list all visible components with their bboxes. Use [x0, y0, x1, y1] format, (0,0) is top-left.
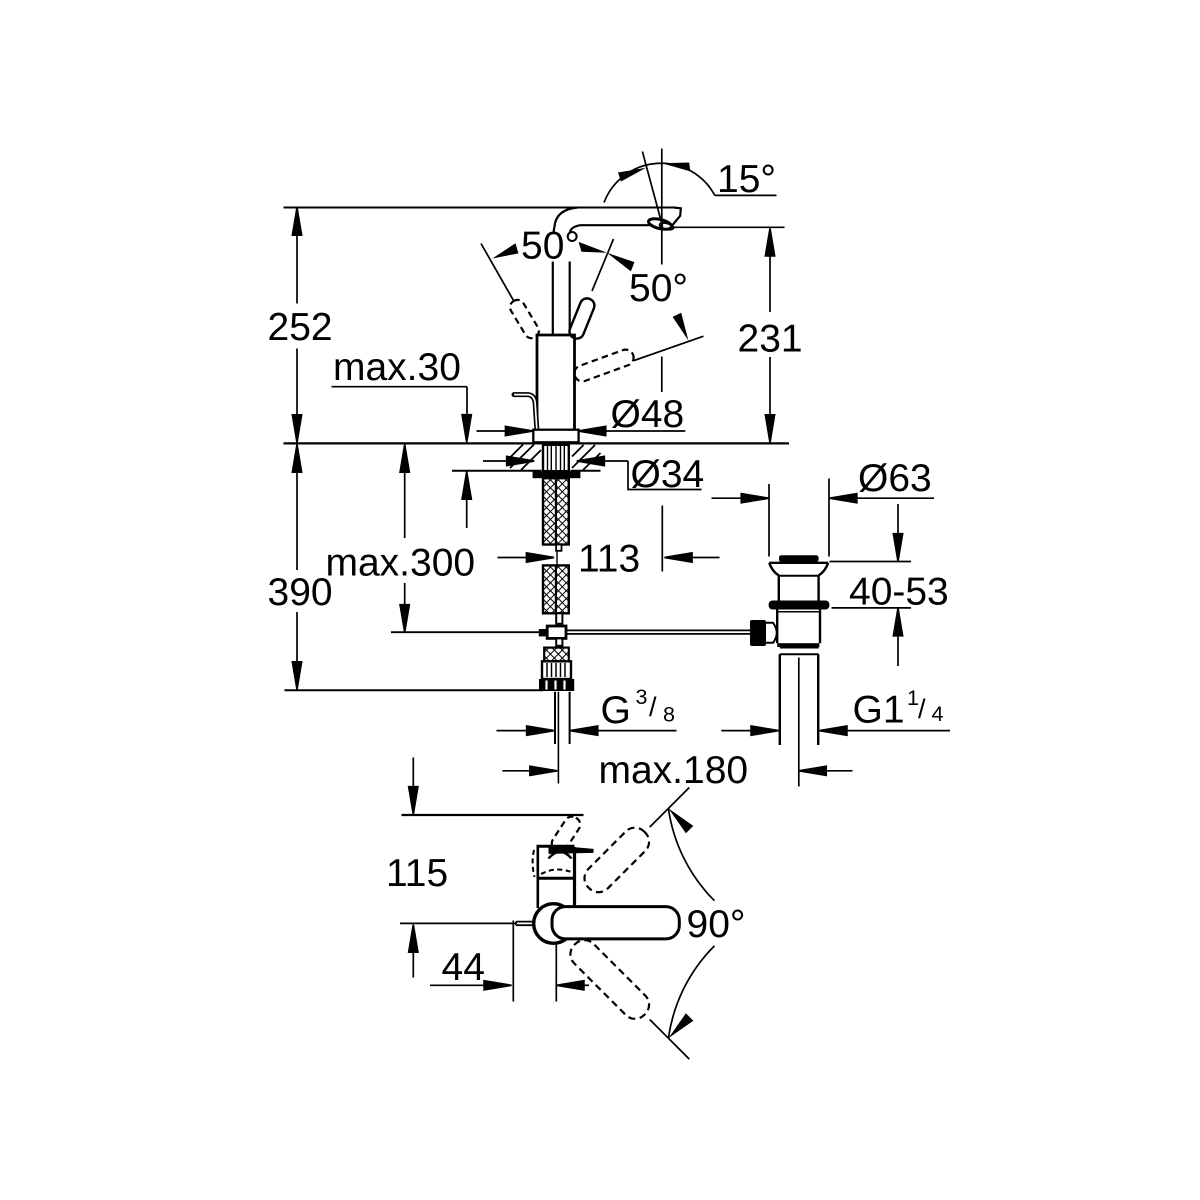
dim 231 outlet extension: [673, 226, 785, 228]
drain neck: [778, 576, 780, 601]
dim 390 bottom reference: [285, 689, 544, 691]
dim 113 arrows: [498, 557, 528, 559]
dim O34 leader: [628, 461, 702, 490]
top view cartridge dome: [549, 852, 572, 859]
svg-text:Ø34: Ø34: [631, 453, 705, 496]
drain flange sides: [769, 563, 779, 576]
top view spout bar: [552, 907, 679, 939]
svg-text:90°: 90°: [687, 903, 746, 946]
svg-text:115: 115: [386, 852, 448, 895]
supply pipe centre extension: [557, 692, 559, 784]
top view lever wedge: [549, 845, 594, 854]
svg-text:50°: 50°: [629, 267, 688, 310]
svg-text:/: /: [649, 692, 657, 722]
faucet body: [536, 334, 576, 337]
top view spout swing dashed lower: [565, 935, 654, 1024]
svg-text:Ø48: Ø48: [611, 393, 685, 436]
dim 15 arrowheads: [618, 168, 646, 182]
dim 15 tilted reference: [642, 152, 662, 227]
svg-text:252: 252: [268, 306, 333, 349]
threaded rod upper: [543, 478, 569, 544]
shank lower threaded piece: [544, 648, 569, 662]
svg-text:G: G: [601, 689, 631, 732]
arrowhead right 50: [673, 313, 689, 341]
dim max30 lower arrow: [466, 473, 468, 528]
pop-up rod handle: [514, 395, 537, 429]
dim 44 arrows: [430, 984, 485, 986]
top view bracket top: [537, 845, 575, 848]
top view bracket bottom: [538, 877, 575, 880]
top view body circle: [534, 904, 574, 944]
drain body bottom ring: [777, 643, 819, 647]
drain washer: [769, 601, 830, 610]
dim 15 leader: [715, 194, 777, 196]
dim 231 line: [769, 230, 771, 312]
drain pop-up cap: [779, 555, 819, 562]
arrowhead 50-1 right: [579, 242, 607, 253]
dim O63 extensions: [768, 484, 770, 557]
pop-up linkage rod: [566, 629, 750, 631]
aerator ring: [647, 217, 672, 232]
dim 390 line: [296, 446, 298, 570]
drain tailpipe: [779, 654, 781, 745]
dim G38 arrows: [497, 730, 528, 732]
shank bottom flange: [539, 679, 574, 691]
dim 90 extension lines: [650, 788, 690, 828]
handle position dashed right 50: [572, 347, 636, 383]
spout top outline: [284, 206, 675, 208]
extension line middle handle axis: [592, 239, 614, 291]
drain rod socket: [766, 623, 777, 643]
svg-text:max.180: max.180: [599, 749, 749, 792]
drain plug rod centre: [798, 658, 800, 787]
linkage stub lower: [556, 638, 562, 645]
shank lower nut: [542, 661, 571, 679]
linkage clamp left: [539, 629, 547, 636]
svg-text:/: /: [918, 694, 926, 724]
counter hatching left: [510, 445, 541, 471]
svg-text:15°: 15°: [717, 158, 776, 201]
neck inner curve: [570, 225, 581, 233]
dim 90 arrowheads: [668, 808, 693, 833]
svg-text:4: 4: [932, 702, 944, 726]
extension line right 50: [634, 336, 704, 361]
drain flange bottom edge: [779, 575, 819, 577]
dim G114 arrows: [721, 730, 752, 732]
dim 44 extensions: [512, 921, 514, 1002]
spout tip face: [672, 208, 681, 226]
svg-text:3: 3: [636, 685, 648, 709]
svg-text:231: 231: [738, 318, 803, 361]
dim O48 arrows: [477, 430, 507, 432]
svg-text:8: 8: [663, 703, 675, 727]
top view spout swing dashed upper: [579, 822, 654, 897]
rod break stub: [556, 545, 561, 551]
drain body: [776, 610, 778, 644]
top view bracket sides: [536, 846, 539, 879]
dim 40-53 arrows: [897, 504, 899, 535]
svg-text:390: 390: [268, 571, 333, 614]
top view pop-up rod: [400, 922, 517, 924]
dim max30 leader: [332, 386, 468, 388]
drain flange top: [769, 562, 828, 564]
supply pipe: [554, 692, 556, 744]
svg-text:44: 44: [442, 946, 485, 989]
dim max180 arrows: [503, 770, 531, 772]
arrowhead 50-2 left: [607, 253, 634, 272]
top view handle neutral dashed: [549, 814, 583, 855]
linkage joint: [547, 626, 566, 638]
svg-text:Ø63: Ø63: [858, 457, 932, 500]
svg-text:113: 113: [578, 538, 640, 581]
dim 113 extension: [661, 506, 663, 572]
dim 15 arc: [604, 163, 715, 202]
mounting shank tube: [543, 445, 569, 471]
svg-text:max.300: max.300: [326, 542, 476, 585]
extension line left 50: [481, 244, 514, 301]
svg-text:50°: 50°: [521, 225, 580, 268]
dim O34 arrows: [483, 460, 508, 462]
dim max300 bottom reference: [391, 631, 542, 633]
top view escutcheon hidden edge: [533, 850, 535, 877]
mounting nut upper: [533, 471, 581, 478]
dim 252 line: [296, 209, 298, 304]
dim 90 arc: [668, 808, 714, 900]
dim 40-53 top reference: [830, 561, 912, 563]
svg-text:max.30: max.30: [333, 346, 461, 389]
handle position dashed left 50: [507, 297, 541, 340]
countertop line: [284, 442, 790, 444]
counter hatching right: [572, 445, 601, 470]
top view dome hidden edge: [541, 869, 574, 874]
threaded rod lower: [543, 565, 569, 613]
base plate: [533, 430, 578, 443]
counter underside line: [452, 470, 542, 472]
dim O63 arrows: [712, 497, 743, 499]
dim 40-53 bottom reference: [832, 607, 912, 609]
drain rod knob: [750, 620, 766, 646]
linkage stub upper: [556, 613, 562, 624]
spout bottom edge: [581, 224, 650, 226]
dim 15 vertical reference: [661, 149, 663, 265]
arrowhead left 50: [492, 243, 518, 258]
neck outer curve: [554, 208, 577, 228]
dim max300 line: [404, 446, 406, 538]
svg-text:G1: G1: [853, 689, 905, 732]
top view reference line upper: [402, 814, 584, 816]
dim 115 line: [412, 758, 414, 788]
handle lever solid: [567, 296, 596, 340]
svg-text:40-53: 40-53: [849, 571, 949, 614]
